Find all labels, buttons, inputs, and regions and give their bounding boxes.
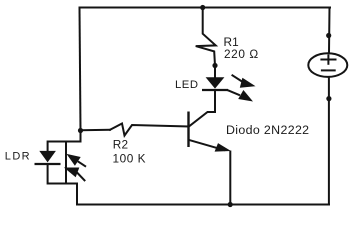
- node battery bottom: [326, 96, 331, 101]
- wire bottom rail: [77, 204, 329, 206]
- LED light arrow 1: [232, 75, 256, 88]
- wire LED anode: [214, 66, 216, 78]
- resistor R2: [110, 124, 189, 136]
- wire left rail: [80, 8, 81, 131]
- svg-text:220 Ω: 220 Ω: [224, 47, 259, 61]
- svg-text:LED: LED: [175, 79, 198, 91]
- wire emitter to bottom rail: [229, 152, 231, 205]
- node battery top: [326, 33, 331, 38]
- wire right rail bottom: [328, 78, 330, 205]
- wire LED cathode to collector: [189, 90, 216, 127]
- node R1-LED junction: [212, 63, 217, 68]
- wire LDR bottom branch: [48, 164, 77, 205]
- wire LDR top branch: [48, 131, 81, 152]
- wire right rail top: [328, 8, 331, 53]
- battery B1: [308, 53, 347, 77]
- resistor R1: [196, 8, 216, 66]
- wire top rail: [80, 7, 330, 9]
- LED light arrow 2: [227, 90, 253, 102]
- LDR light arrow 1: [67, 154, 87, 167]
- LDR light arrow 2: [64, 168, 85, 182]
- wire LDR inner vertical: [65, 142, 67, 184]
- svg-text:100 K: 100 K: [113, 152, 147, 166]
- svg-text:R2: R2: [113, 138, 129, 152]
- node left junction: [78, 128, 83, 133]
- node emitter bottom junction: [228, 202, 233, 207]
- svg-text:Diodo 2N2222: Diodo 2N2222: [226, 123, 309, 137]
- LED D1: [202, 77, 228, 90]
- LDR: [35, 151, 61, 164]
- transistor Q1 2N2222: [189, 112, 232, 152]
- svg-text:LDR: LDR: [5, 151, 31, 163]
- node top junction: [200, 5, 205, 10]
- wire R2 to base: [81, 129, 111, 131]
